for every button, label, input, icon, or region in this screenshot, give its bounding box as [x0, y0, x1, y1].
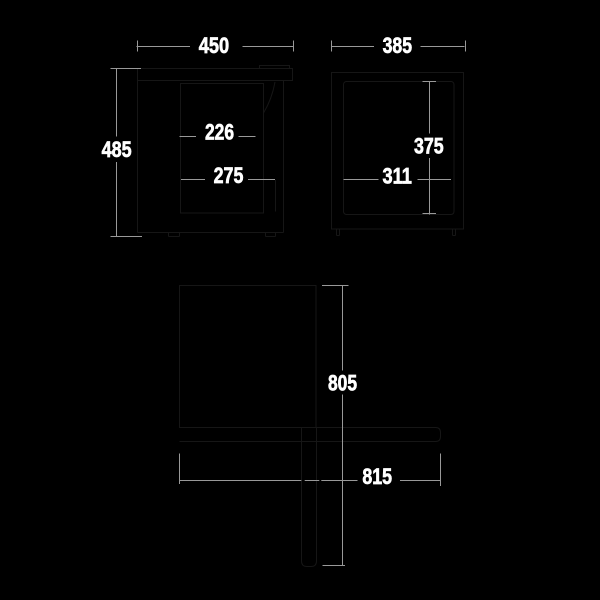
svg-text:485: 485 — [102, 137, 132, 162]
dim line 375 — [429, 82, 431, 215]
dim 450 ticks — [138, 41, 294, 52]
svg-text:275: 275 — [214, 163, 244, 188]
svg-text:385: 385 — [383, 33, 412, 58]
side outline — [332, 73, 464, 230]
drawer pulled out slab — [180, 428, 441, 442]
svg-text:226: 226 — [205, 120, 234, 145]
dim 485 ticks — [111, 69, 143, 237]
side right foot — [453, 229, 456, 236]
svg-text:375: 375 — [414, 134, 444, 159]
dim 815 extension right — [440, 454, 442, 487]
left foot — [169, 233, 180, 237]
dim line 450 — [137, 46, 294, 48]
svg-text:815: 815 — [362, 464, 392, 489]
right foot — [266, 233, 276, 237]
dim line 226 — [180, 136, 256, 138]
dim 805 end bars — [322, 286, 349, 566]
door open edge — [275, 180, 277, 212]
dim line 485 — [116, 69, 118, 237]
door swing arc — [264, 82, 276, 113]
side inner panel — [344, 82, 455, 215]
dim 815 extension left — [179, 454, 181, 485]
cabinet left side — [137, 81, 139, 233]
dim line 815 — [180, 480, 441, 482]
dim 375 ticks — [423, 82, 437, 214]
dim line 385 — [332, 46, 465, 48]
dim line 311 — [344, 179, 452, 181]
cabinet right side — [283, 81, 285, 233]
svg-text:450: 450 — [199, 33, 229, 58]
dim 385 ticks — [332, 41, 466, 52]
cabinet bottom — [138, 232, 284, 234]
drain pipe — [302, 428, 317, 567]
svg-text:311: 311 — [383, 163, 412, 188]
svg-text:805: 805 — [328, 370, 357, 395]
cabinet box — [180, 286, 317, 428]
washbasin deck front — [138, 69, 293, 81]
dim line 275 — [181, 179, 275, 181]
side left foot — [337, 229, 340, 236]
tap block on deck — [260, 66, 290, 69]
door panel — [181, 84, 264, 214]
dim line 805 — [342, 286, 344, 566]
